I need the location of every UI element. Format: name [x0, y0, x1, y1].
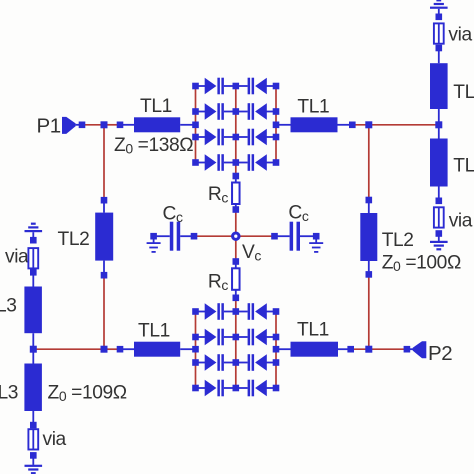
label TL1 bottom-right	[297, 320, 329, 341]
svg-text:TL1: TL1	[140, 96, 172, 117]
junction node bottom-right (TL2-right tap)	[365, 346, 372, 353]
lead via to TL3 upper-left	[32, 275, 34, 286]
wire TL2-left junction to TL1 pin	[104, 124, 120, 126]
node top quad middle rail row3	[233, 134, 240, 141]
wire Rc down through bottom array middle rail	[235, 298, 237, 388]
lead TL1 top-right output	[338, 124, 350, 126]
ground stem left Cc	[153, 239, 155, 242]
lead TL1 top output to diode quad	[180, 124, 195, 126]
pin node top-left via upper	[30, 237, 37, 244]
svg-text:TL1: TL1	[138, 321, 170, 342]
junction node bottom-left stub	[30, 346, 37, 353]
ground top-right	[430, 0, 448, 9]
lead lower Rc top	[235, 262, 237, 269]
varactor bottom quad row4 right	[236, 380, 276, 397]
svg-text:P1: P1	[37, 115, 61, 138]
ground stem top-left	[32, 232, 34, 237]
varactor bottom quad row2 right	[236, 329, 276, 346]
transmission line TL1 bottom-right	[291, 342, 339, 357]
lead TL2-left top	[103, 203, 105, 212]
label Z0=109ohm for TL3	[48, 383, 127, 405]
pin node left Cc ground	[150, 233, 157, 240]
pin node bottom quad right rail (line tap)	[273, 346, 280, 353]
via top-left	[28, 248, 38, 268]
lead left Cc left plate	[157, 235, 170, 237]
label TL3 upper-right (clipped)	[453, 82, 474, 103]
node top quad middle rail row4	[233, 159, 240, 166]
pin node mid-right via lower	[436, 230, 443, 237]
node bottom quad left rail row2	[192, 334, 199, 341]
node lower Rc top	[233, 258, 240, 265]
transmission line TL1 bottom-left	[134, 342, 180, 357]
pin node bottom-left via lower	[30, 452, 37, 459]
resistor Rc lower	[232, 268, 240, 290]
wire top array middle rail down to Rc	[235, 86, 237, 176]
svg-text:TL2: TL2	[58, 229, 90, 250]
varactor top quad row1 left	[196, 78, 236, 95]
pin node right Cc left	[271, 233, 278, 240]
lead lower Rc bottom	[235, 290, 237, 298]
transmission line TL3 upper-right	[430, 63, 448, 109]
node upper Rc bottom	[233, 206, 240, 213]
pin node TL1 top-right output	[349, 122, 356, 129]
ground stem right Cc	[315, 239, 317, 242]
wire left stub junction to TL2-left junction (bottom)	[33, 348, 104, 350]
lead TL1 bottom output to diode quad	[180, 348, 195, 350]
svg-text:TL1: TL1	[297, 320, 329, 341]
node top quad left rail row3	[192, 134, 199, 141]
wire Vc node to left Cc pin	[194, 235, 236, 237]
resistor Rc upper	[232, 183, 240, 205]
pin node top-left via lower	[30, 269, 37, 276]
label Cc left	[163, 204, 183, 226]
node bottom quad middle rail row1	[233, 308, 240, 315]
transmission line TL1 top-right	[291, 117, 338, 132]
capacitor Cc right	[290, 222, 300, 251]
node Vc (bias input)	[233, 233, 239, 239]
node top quad right rail row2	[273, 108, 280, 115]
node bottom quad middle rail row2	[233, 334, 240, 341]
node bottom quad middle rail row3	[233, 359, 240, 366]
wire TL2-left junction to TL1 pin (bottom)	[104, 348, 120, 350]
pin node left Cc right	[191, 233, 198, 240]
label Vc	[242, 242, 261, 264]
wire P1 node to TL2-left junction	[82, 124, 104, 126]
svg-text:TL3: TL3	[0, 383, 18, 404]
svg-text:via: via	[43, 429, 67, 450]
node top quad left rail row4	[192, 159, 199, 166]
pin node right Cc ground	[313, 233, 320, 240]
node top quad left rail row2	[192, 108, 199, 115]
pin node top-right via upper	[436, 14, 443, 21]
svg-text:TL3: TL3	[0, 296, 17, 317]
lead TL1 top input	[123, 124, 134, 126]
varactor bottom quad row4 left	[196, 380, 236, 397]
wire TL2-right bottom to bottom junction	[368, 274, 370, 349]
lead upper Rc bottom	[235, 204, 237, 210]
transmission line TL3 lower-left	[24, 364, 42, 412]
lead TL3 lower-right to via	[438, 187, 440, 198]
pin node TL1 top input	[117, 122, 124, 129]
varactor top quad row4 right	[236, 154, 276, 171]
ground left Cc	[147, 242, 161, 253]
label Rc upper	[208, 184, 228, 206]
pin node TL1 bottom-right output	[347, 346, 354, 353]
wire bottom array right rail	[275, 312, 277, 389]
ground bottom-left	[25, 465, 43, 474]
junction node top-right (TL2-right tap)	[365, 121, 372, 128]
wire TL1-right output node to TL2-right junction (bottom)	[351, 348, 369, 350]
via bottom-left	[28, 429, 38, 449]
lead diode quad to TL1 bottom-right	[276, 348, 291, 350]
via top-right	[434, 23, 444, 43]
varactor top quad row1 right	[236, 78, 276, 95]
pin node top-right via lower	[436, 45, 443, 52]
ground mid-right	[430, 241, 448, 251]
wire TL2-right junction to P2 pin node	[369, 348, 407, 350]
wire top array left rail	[195, 86, 197, 163]
pin node TL2-right bottom	[366, 271, 373, 278]
pin node TL2-left top	[101, 197, 108, 204]
junction node top-left (TL2-left tap)	[101, 121, 108, 128]
pin node TL2-right top	[366, 197, 373, 204]
node bottom quad left rail row4	[192, 385, 199, 392]
label Z0=100ohm for TL2 right	[382, 253, 461, 275]
lead junction to TL3 lower-left	[32, 352, 34, 363]
junction node bottom-left (TL2-left tap)	[101, 346, 108, 353]
lead TL3 upper-left to junction	[32, 333, 34, 346]
label Cc right	[288, 203, 308, 225]
transmission line TL2 right	[360, 213, 377, 261]
transmission line TL2 left	[95, 213, 113, 261]
lead TL2-right top	[368, 203, 370, 213]
ground top-left	[25, 223, 43, 233]
ground right Cc	[309, 242, 323, 253]
label TL1 top-left	[140, 96, 172, 117]
varactor bottom quad row1 left	[196, 303, 236, 320]
transmission line TL3 lower-right	[430, 139, 448, 187]
node bottom quad right rail row3	[273, 359, 280, 366]
label via bottom-left	[43, 429, 67, 450]
pin node P1	[79, 122, 86, 129]
node bottom quad right rail row1	[273, 308, 280, 315]
svg-text:P2: P2	[428, 342, 452, 365]
label TL2 right	[382, 230, 414, 251]
lead TL1 bottom-right output	[338, 348, 348, 350]
varactor bottom quad row2 left	[196, 329, 236, 346]
label TL3 lower-left (clipped)	[0, 383, 18, 404]
pin node bottom-left via upper	[30, 422, 37, 429]
lead diode quad to TL1 top-right	[276, 124, 291, 126]
lead right Cc left plate	[278, 235, 290, 237]
node top quad middle rail row1	[233, 83, 240, 90]
svg-text:TL3: TL3	[453, 82, 474, 103]
label TL1 bottom-left	[138, 321, 170, 342]
svg-text:TL1: TL1	[297, 97, 329, 118]
node upper Rc top	[233, 173, 240, 180]
node bottom quad middle rail row4	[233, 385, 240, 392]
label via top-left	[5, 247, 29, 268]
varactor bottom quad row3 right	[236, 354, 276, 371]
label TL2 left	[58, 229, 90, 250]
ground stem top-right	[438, 9, 440, 14]
varactor bottom quad row1 right	[236, 303, 276, 320]
varactor top quad row2 left	[196, 103, 236, 120]
wire top junction down to TL2-right	[368, 125, 370, 200]
node top quad right rail row4	[273, 159, 280, 166]
transmission line TL3 upper-left	[24, 287, 42, 334]
ground stem bottom-left	[32, 458, 34, 465]
lead left Cc right plate	[180, 235, 191, 237]
lead TL3 lower-left to via	[32, 411, 34, 422]
node top quad right rail row3	[273, 134, 280, 141]
node top quad right rail row1	[273, 83, 280, 90]
svg-text:TL2: TL2	[382, 230, 414, 251]
varactor top quad row3 left	[196, 129, 236, 146]
wire upper Rc to Vc node	[235, 210, 237, 234]
pin node TL2-left bottom	[101, 272, 108, 279]
wire top junction down to TL2-left	[103, 125, 105, 200]
lead right Cc right plate	[300, 235, 313, 237]
svg-text:via: via	[449, 211, 473, 232]
pin node top quad left rail (line tap)	[192, 122, 199, 129]
via mid-right	[434, 207, 444, 227]
node top quad middle rail row2	[233, 108, 240, 115]
ground stem mid-right	[438, 237, 440, 242]
lead via to TL3 upper-right	[438, 51, 440, 63]
wire bottom array left rail	[195, 312, 197, 389]
label TL1 top-right	[297, 97, 329, 118]
node lower Rc bottom	[233, 295, 240, 302]
wire TL2-left bottom to bottom junction	[103, 275, 105, 349]
wire TL2-right junction to right stub junction (top)	[369, 124, 439, 126]
lead TL2-right bottom	[368, 261, 370, 271]
varactor top quad row2 right	[236, 103, 276, 120]
label Rc lower	[208, 272, 228, 294]
wire top array right rail	[275, 86, 277, 163]
pin node P2	[404, 346, 411, 353]
pin node top quad right rail (line tap)	[273, 122, 280, 129]
pin node mid-right via upper	[436, 198, 443, 205]
node bottom quad right rail row4	[273, 385, 280, 392]
port P2 label	[428, 342, 452, 365]
label TL3 lower-right (clipped)	[453, 156, 474, 177]
wire Vc node to lower Rc	[235, 240, 237, 262]
port P1	[62, 117, 80, 134]
label via top-right	[448, 24, 472, 45]
node bottom quad left rail row3	[192, 359, 199, 366]
wire TL1-right output node to TL2-right junction (top)	[352, 124, 369, 126]
pin node TL1 bottom input	[117, 346, 124, 353]
node bottom quad left rail row1	[192, 308, 199, 315]
svg-text:via: via	[448, 24, 472, 45]
node top quad left rail row1	[192, 83, 199, 90]
label TL3 upper-left (clipped)	[0, 296, 17, 317]
lead junction to TL3 lower-right	[438, 128, 440, 139]
port P2	[410, 341, 426, 358]
varactor top quad row3 right	[236, 129, 276, 146]
junction node top-right stub	[435, 121, 442, 128]
lead upper Rc top	[235, 176, 237, 183]
lead TL2-left bottom	[103, 261, 105, 273]
varactor bottom quad row3 left	[196, 354, 236, 371]
capacitor Cc left	[170, 222, 180, 251]
lead TL3 upper-right to junction	[438, 109, 440, 122]
lead TL1 bottom input	[123, 348, 134, 350]
svg-text:TL3: TL3	[453, 156, 474, 177]
port P1 label	[37, 115, 61, 138]
wire Vc node to right Cc pin	[236, 235, 275, 237]
varactor top quad row4 left	[196, 154, 236, 171]
svg-text:via: via	[5, 247, 29, 268]
label via mid-right	[449, 211, 473, 232]
node bottom quad right rail row2	[273, 334, 280, 341]
label Z0=138ohm for TL1	[114, 135, 193, 157]
pin node bottom quad left rail (line tap)	[192, 346, 199, 353]
transmission line TL1 top-left	[134, 117, 180, 132]
